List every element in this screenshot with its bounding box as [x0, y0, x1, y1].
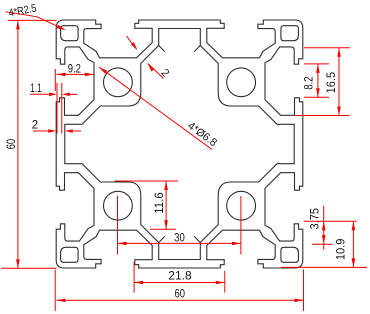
svg-text:3.75: 3.75: [310, 208, 322, 230]
svg-text:1.1: 1.1: [30, 83, 42, 95]
svg-text:11.6: 11.6: [154, 192, 166, 214]
svg-text:60: 60: [174, 289, 185, 301]
svg-text:4*R2.5: 4*R2.5: [8, 2, 38, 19]
svg-text:10.9: 10.9: [336, 239, 348, 261]
svg-text:2: 2: [32, 119, 38, 131]
svg-text:2: 2: [159, 67, 172, 80]
svg-text:16.5: 16.5: [326, 72, 338, 94]
svg-text:60: 60: [6, 139, 18, 150]
svg-text:30: 30: [174, 233, 185, 245]
svg-text:9.2: 9.2: [68, 63, 81, 75]
svg-text:4*Ø6.8: 4*Ø6.8: [185, 120, 219, 149]
svg-text:8.2: 8.2: [303, 76, 315, 89]
svg-text:21.8: 21.8: [168, 270, 192, 282]
